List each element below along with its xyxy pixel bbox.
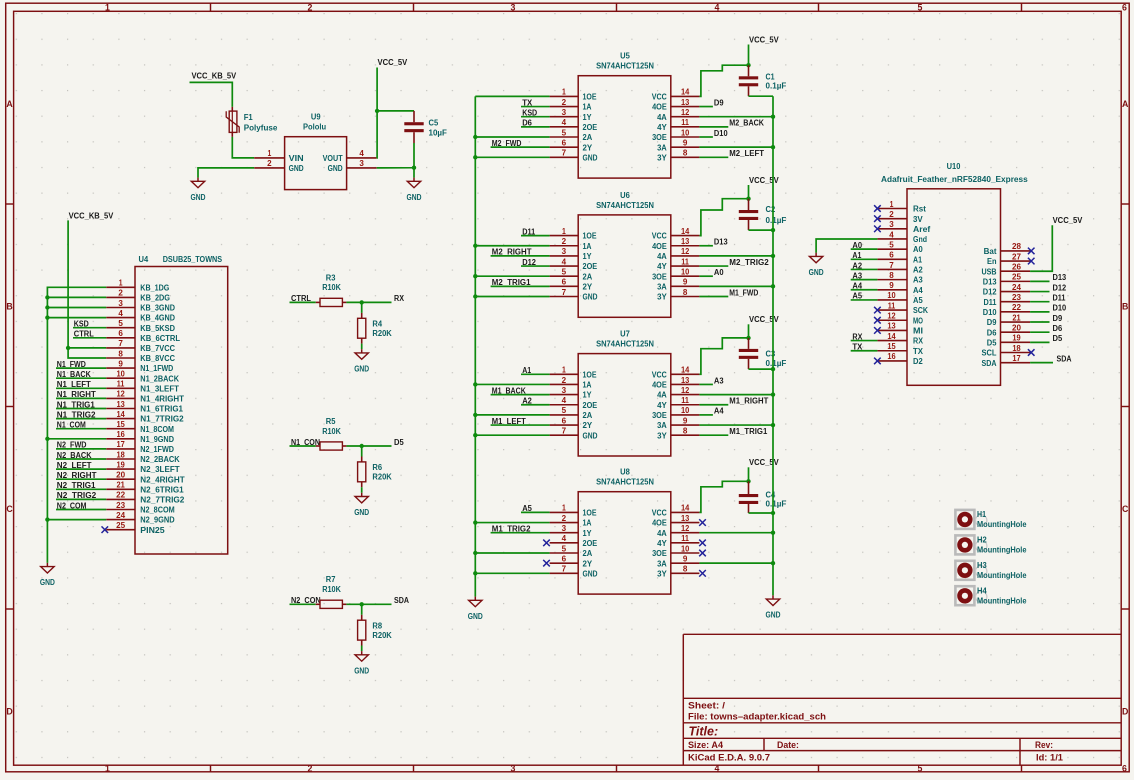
- svg-text:RX: RX: [913, 336, 923, 346]
- svg-text:C: C: [1122, 504, 1129, 514]
- svg-text:A: A: [1122, 99, 1129, 109]
- svg-text:3A: 3A: [657, 558, 667, 568]
- capacitor C4 0.1uF: [739, 481, 787, 513]
- svg-text:4OE: 4OE: [652, 102, 667, 112]
- svg-text:A0: A0: [913, 244, 923, 254]
- connector U4 DSUB25_TOWNS: [106, 254, 228, 554]
- net label SDA (U10): [1030, 362, 1053, 364]
- svg-text:R20K: R20K: [372, 328, 392, 338]
- svg-text:1: 1: [119, 279, 123, 288]
- svg-text:N1_7TRIG2: N1_7TRIG2: [140, 414, 184, 424]
- svg-text:6: 6: [562, 554, 567, 563]
- wire C1 to right bus: [749, 95, 774, 97]
- svg-text:KB_7VCC: KB_7VCC: [140, 343, 175, 353]
- svg-text:12: 12: [681, 524, 690, 533]
- svg-text:MountingHole: MountingHole: [977, 545, 1027, 555]
- svg-text:3A: 3A: [657, 142, 667, 152]
- wire down to R6: [361, 446, 363, 457]
- junction VCC C3: [746, 336, 750, 340]
- svg-text:13: 13: [681, 514, 690, 523]
- svg-text:M1_FWD: M1_FWD: [729, 287, 758, 297]
- svg-text:VCC_5V: VCC_5V: [749, 34, 779, 44]
- svg-text:A2: A2: [913, 265, 923, 275]
- svg-text:5: 5: [562, 268, 567, 277]
- svg-text:21: 21: [116, 481, 125, 490]
- svg-text:VOUT: VOUT: [323, 153, 344, 163]
- svg-text:1: 1: [105, 763, 110, 773]
- svg-text:1OE: 1OE: [583, 231, 597, 241]
- wire U7 pin 14 to VCC_5V: [699, 338, 748, 374]
- wire down to R4: [361, 302, 363, 313]
- wire U5 pin 13 to D9: [699, 106, 713, 108]
- svg-text:GND: GND: [328, 163, 343, 173]
- junction (GND node at C5): [412, 166, 416, 170]
- svg-text:2: 2: [562, 98, 567, 107]
- svg-text:Rst: Rst: [913, 204, 926, 214]
- junction VCC C2: [746, 197, 750, 201]
- svg-text:1A: 1A: [583, 518, 592, 528]
- no-connects U10 left pins 1,2,3,11,12,13,16: [874, 205, 881, 212]
- svg-text:SCL: SCL: [982, 348, 997, 358]
- svg-text:En: En: [987, 256, 997, 266]
- svg-text:2OE: 2OE: [583, 400, 598, 410]
- junction bus/U5.9: [771, 145, 775, 149]
- no-connect U8 pin 8: [699, 570, 706, 577]
- svg-text:KB_3GND: KB_3GND: [140, 303, 175, 313]
- no-connect U4 pin 25: [102, 526, 109, 533]
- svg-text:D10: D10: [983, 307, 997, 317]
- svg-text:3OE: 3OE: [652, 132, 667, 142]
- wire R5 to D5: [346, 445, 391, 447]
- wire C4 to right bus: [749, 512, 774, 514]
- capacitor C5: [404, 111, 447, 143]
- svg-text:3: 3: [359, 159, 364, 168]
- wire bus to U8 pin 2: [475, 522, 549, 524]
- net label D12 (U10): [1030, 291, 1049, 293]
- wire R3 to RX: [346, 301, 391, 303]
- svg-text:N2_2BACK: N2_2BACK: [140, 454, 180, 464]
- wire C5 / U9 GND(3): [377, 143, 414, 168]
- svg-text:D12: D12: [1053, 282, 1067, 292]
- junction bus/U8.9: [771, 561, 775, 565]
- wire U5 pin 11 to M2_BACK: [699, 126, 728, 128]
- ground symbol (U4): [40, 563, 55, 587]
- svg-text:6: 6: [1122, 763, 1127, 773]
- svg-text:1: 1: [562, 227, 566, 236]
- junction bus/U7.9: [771, 423, 775, 427]
- svg-text:N1_3LEFT: N1_3LEFT: [140, 383, 179, 393]
- svg-text:B: B: [1122, 302, 1128, 312]
- no-connect U8 pin 6: [543, 560, 550, 567]
- svg-text:VCC_5V: VCC_5V: [378, 57, 408, 67]
- svg-text:A: A: [6, 99, 13, 109]
- svg-text:3OE: 3OE: [652, 410, 667, 420]
- svg-text:10: 10: [681, 406, 690, 415]
- svg-text:VCC: VCC: [652, 231, 667, 241]
- svg-text:VIN: VIN: [289, 153, 304, 163]
- svg-text:Aref: Aref: [913, 224, 930, 234]
- svg-text:A1: A1: [913, 254, 922, 264]
- svg-text:GND: GND: [354, 507, 369, 517]
- svg-text:D13: D13: [714, 237, 728, 247]
- svg-text:KB_1DG: KB_1DG: [140, 282, 169, 292]
- svg-text:N1_2BACK: N1_2BACK: [140, 373, 179, 383]
- svg-text:D6: D6: [1053, 323, 1063, 333]
- svg-text:Sheet: /: Sheet: /: [688, 700, 726, 710]
- svg-text:6: 6: [562, 278, 567, 287]
- svg-text:25: 25: [116, 521, 125, 530]
- svg-text:PIN25: PIN25: [140, 525, 165, 535]
- svg-text:14: 14: [681, 504, 690, 513]
- no-connect U8 pin 13: [699, 519, 706, 526]
- wire M2_RIGHT to U6 pin 3: [491, 255, 550, 257]
- svg-text:DSUB25_TOWNS: DSUB25_TOWNS: [163, 254, 223, 264]
- svg-text:MI: MI: [913, 326, 923, 336]
- svg-text:11: 11: [681, 118, 689, 127]
- wire bus to U6 pin 2: [475, 245, 549, 247]
- svg-text:N2_8COM: N2_8COM: [140, 505, 174, 515]
- wire C3 to right bus: [749, 368, 774, 370]
- svg-text:1: 1: [562, 366, 566, 375]
- junction VCC C1: [746, 63, 750, 67]
- svg-text:0.1µF: 0.1µF: [766, 215, 787, 225]
- ground symbol: [354, 651, 369, 675]
- svg-text:26: 26: [1012, 263, 1021, 272]
- svg-text:2Y: 2Y: [583, 420, 593, 430]
- svg-text:F1: F1: [244, 112, 253, 122]
- junction bus/U8.2: [473, 520, 477, 524]
- svg-text:N2_4RIGHT: N2_4RIGHT: [140, 474, 185, 484]
- svg-text:7: 7: [562, 288, 567, 297]
- capacitor C2 0.1uF: [739, 199, 787, 230]
- svg-text:R7: R7: [326, 574, 336, 584]
- svg-text:3: 3: [562, 108, 567, 117]
- svg-text:GND: GND: [766, 610, 781, 620]
- svg-text:U10: U10: [947, 161, 961, 171]
- svg-text:1Y: 1Y: [583, 112, 592, 122]
- svg-text:4: 4: [715, 3, 720, 13]
- svg-text:File: towns–adapter.kicad_sch: File: towns–adapter.kicad_sch: [688, 711, 826, 721]
- svg-text:9: 9: [683, 554, 688, 563]
- wire D12 to U6 pin 4: [521, 265, 550, 267]
- svg-text:23: 23: [116, 501, 125, 510]
- svg-text:8: 8: [683, 565, 688, 574]
- svg-text:KB_2DG: KB_2DG: [140, 293, 170, 303]
- svg-text:11: 11: [888, 301, 896, 310]
- svg-text:D10: D10: [1053, 303, 1067, 313]
- svg-text:22: 22: [116, 491, 125, 500]
- svg-text:U5: U5: [620, 51, 630, 61]
- svg-text:R10K: R10K: [322, 584, 341, 594]
- wire VCC_KB_5V to F1: [190, 82, 233, 107]
- svg-text:9: 9: [683, 278, 688, 287]
- svg-text:A0: A0: [714, 267, 724, 277]
- svg-text:VCC_KB_5V: VCC_KB_5V: [69, 211, 114, 221]
- svg-text:5: 5: [562, 406, 567, 415]
- svg-text:N1_8COM: N1_8COM: [140, 424, 174, 434]
- svg-text:D: D: [1122, 707, 1128, 717]
- junctions on U4 ground bus: [45, 295, 49, 299]
- svg-text:4: 4: [562, 534, 567, 543]
- svg-text:3OE: 3OE: [652, 271, 667, 281]
- svg-text:D10: D10: [714, 128, 728, 138]
- wire KSD to U5 pin 3: [521, 116, 550, 118]
- svg-text:3OE: 3OE: [652, 548, 667, 558]
- svg-text:SN74AHCT125N: SN74AHCT125N: [596, 61, 654, 71]
- net label D10 (U10): [1030, 311, 1049, 313]
- svg-text:9: 9: [683, 138, 688, 147]
- wire M1_TRIG2 to U8 pin 3: [491, 532, 550, 534]
- svg-text:C5: C5: [429, 118, 439, 128]
- svg-text:1A: 1A: [583, 102, 592, 112]
- svg-text:1: 1: [890, 200, 894, 209]
- svg-text:4A: 4A: [657, 528, 667, 538]
- svg-text:5: 5: [918, 3, 923, 13]
- junction bus/U7.12: [771, 392, 775, 396]
- wire U5 pin 9 to right bus: [699, 146, 773, 148]
- svg-text:D12: D12: [983, 287, 997, 297]
- ground symbol: [354, 493, 369, 517]
- svg-text:21: 21: [1012, 313, 1021, 322]
- wire U9 GND(2) down: [198, 168, 254, 178]
- svg-text:GND: GND: [468, 611, 483, 621]
- svg-text:U4: U4: [139, 254, 149, 264]
- wire F1 to U9 VIN: [232, 137, 254, 158]
- wire VCC_5V stub C4: [748, 467, 750, 481]
- svg-text:2Y: 2Y: [583, 281, 593, 291]
- svg-text:MountingHole: MountingHole: [977, 519, 1027, 529]
- svg-text:2: 2: [118, 289, 123, 298]
- svg-text:H3: H3: [977, 560, 987, 570]
- svg-text:VCC_5V: VCC_5V: [749, 314, 779, 324]
- svg-text:VCC_5V: VCC_5V: [1053, 215, 1083, 225]
- svg-text:12: 12: [887, 312, 896, 321]
- junction bus/U5.5: [473, 135, 477, 139]
- svg-text:3: 3: [511, 3, 516, 13]
- svg-text:9: 9: [683, 416, 688, 425]
- svg-text:4Y: 4Y: [657, 122, 667, 132]
- svg-text:10: 10: [887, 291, 896, 300]
- wire D6 to U5 pin 4: [521, 126, 550, 128]
- wire VCC_5V stub C3: [748, 324, 750, 338]
- svg-text:2OE: 2OE: [583, 122, 598, 132]
- module U10 Adafruit_Feather_nRF52840_Express: [877, 161, 1030, 385]
- svg-text:D5: D5: [987, 337, 997, 347]
- svg-text:5: 5: [562, 128, 567, 137]
- wire A1 to U7 pin 1: [521, 373, 550, 375]
- regulator U9: [254, 111, 377, 189]
- svg-text:D13: D13: [983, 276, 997, 286]
- svg-text:Rev:: Rev:: [1035, 740, 1053, 750]
- svg-text:14: 14: [887, 332, 896, 341]
- wire R6 to ground: [361, 487, 363, 493]
- svg-text:2A: 2A: [583, 548, 593, 558]
- svg-text:3: 3: [118, 299, 123, 308]
- svg-text:4OE: 4OE: [652, 241, 667, 251]
- junction (SDA node): [360, 602, 364, 606]
- svg-text:14: 14: [681, 366, 690, 375]
- wire right bus U5-U8: [772, 96, 774, 595]
- svg-text:D11: D11: [1053, 293, 1066, 303]
- svg-text:5: 5: [562, 544, 567, 553]
- svg-text:GND: GND: [289, 163, 304, 173]
- wire U6 pin 13 to D13: [699, 245, 713, 247]
- svg-text:4: 4: [118, 309, 123, 318]
- svg-text:4Y: 4Y: [657, 538, 667, 548]
- svg-text:8: 8: [683, 149, 688, 158]
- wire M1_LEFT to U7 pin 6: [491, 424, 550, 426]
- svg-text:M1_RIGHT: M1_RIGHT: [729, 396, 769, 406]
- junction bus/U5.7: [473, 155, 477, 159]
- svg-text:8: 8: [683, 288, 688, 297]
- svg-text:17: 17: [1012, 354, 1021, 363]
- junction (RX node): [360, 300, 364, 304]
- net label D9 (U10): [1030, 321, 1049, 323]
- svg-text:1: 1: [105, 3, 110, 13]
- wire bus to U6 pin 7: [475, 296, 549, 298]
- svg-text:U8: U8: [620, 467, 630, 477]
- svg-text:Size: A4: Size: A4: [688, 740, 723, 750]
- junction bus/U8.5: [473, 551, 477, 555]
- junction bus/U6.7: [473, 294, 477, 298]
- svg-text:SN74AHCT125N: SN74AHCT125N: [596, 477, 654, 487]
- wire M2_TRIG1 to U6 pin 6: [491, 285, 550, 287]
- svg-text:4: 4: [889, 230, 894, 239]
- no-connect U8 pin 4: [543, 540, 550, 547]
- svg-text:KiCad E.D.A. 9.0.7: KiCad E.D.A. 9.0.7: [688, 753, 770, 763]
- svg-text:16: 16: [887, 352, 896, 361]
- junction VCC C4: [746, 479, 750, 483]
- svg-text:R10K: R10K: [322, 282, 341, 292]
- svg-text:N2_9GND: N2_9GND: [140, 515, 174, 525]
- svg-text:A4: A4: [714, 406, 724, 416]
- svg-text:A3: A3: [714, 375, 724, 385]
- svg-text:KB_5KSD: KB_5KSD: [140, 323, 175, 333]
- ground symbol (U9 input): [191, 178, 206, 202]
- svg-text:M2_TRIG2: M2_TRIG2: [729, 257, 769, 267]
- resistor R4: [358, 313, 393, 344]
- wire U5 pin 10 to D10: [699, 136, 713, 138]
- svg-text:2: 2: [889, 210, 894, 219]
- svg-text:8: 8: [889, 271, 894, 280]
- resistor R8: [358, 615, 393, 646]
- svg-text:2Y: 2Y: [583, 142, 593, 152]
- mounting hole H3: [955, 560, 1026, 580]
- svg-text:1: 1: [562, 504, 566, 513]
- svg-text:15: 15: [887, 342, 896, 351]
- wire bus to U7 pin 7: [475, 434, 549, 436]
- wire C2 to right bus: [749, 229, 774, 231]
- svg-text:10: 10: [681, 268, 690, 277]
- capacitor C1 0.1uF: [739, 65, 787, 96]
- svg-text:GND: GND: [583, 568, 598, 578]
- svg-text:VCC_5V: VCC_5V: [749, 457, 779, 467]
- svg-text:10: 10: [116, 370, 125, 379]
- svg-text:GND: GND: [583, 292, 598, 302]
- wire U7 pin 8 to M1_TRIG1: [699, 434, 728, 436]
- wire U6 pin 12 to right bus: [699, 255, 773, 257]
- resistor R3: [316, 272, 347, 306]
- svg-text:3: 3: [562, 247, 567, 256]
- ground symbol: [354, 349, 369, 373]
- svg-text:GND: GND: [583, 152, 598, 162]
- svg-text:1OE: 1OE: [583, 508, 597, 518]
- junction bus/U5.12: [771, 115, 775, 119]
- svg-text:D9: D9: [987, 317, 997, 327]
- svg-text:4Y: 4Y: [657, 261, 667, 271]
- svg-text:20: 20: [116, 471, 125, 480]
- svg-text:20: 20: [1012, 323, 1021, 332]
- wire U10 USB pin 26 to VCC_5V: [1030, 225, 1052, 271]
- svg-text:2A: 2A: [583, 132, 593, 142]
- junction bus/C3: [771, 367, 775, 371]
- wire U5 pin 8 to M2_LEFT: [699, 156, 728, 158]
- svg-text:12: 12: [681, 247, 690, 256]
- svg-text:0.1µF: 0.1µF: [766, 80, 787, 90]
- ground symbol (left bus): [468, 597, 483, 621]
- mounting hole H1: [955, 509, 1026, 529]
- wire down to R8: [361, 604, 363, 615]
- svg-text:3V: 3V: [913, 214, 923, 224]
- svg-text:D2: D2: [913, 356, 923, 366]
- svg-text:D9: D9: [1053, 313, 1063, 323]
- resistor R7: [316, 574, 347, 608]
- svg-text:N2_7TRIG2: N2_7TRIG2: [140, 495, 184, 505]
- junction bus/U8.12: [771, 531, 775, 535]
- svg-text:A4: A4: [913, 285, 923, 295]
- svg-text:A3: A3: [913, 275, 923, 285]
- svg-text:3Y: 3Y: [657, 568, 667, 578]
- svg-text:D: D: [6, 707, 12, 717]
- capacitor C3 0.1uF: [739, 338, 787, 369]
- buffer IC U6 SN74AHCT125N: [550, 190, 700, 317]
- wire U5 pin 14 to VCC_5V: [699, 65, 748, 96]
- svg-text:5: 5: [118, 319, 123, 328]
- junction bus/C2: [771, 228, 775, 232]
- svg-text:Gnd: Gnd: [913, 234, 927, 244]
- junction bus/U6.12: [771, 254, 775, 258]
- svg-text:4: 4: [562, 118, 567, 127]
- wire A2 to U7 pin 4: [521, 404, 550, 406]
- svg-text:MountingHole: MountingHole: [977, 595, 1027, 605]
- svg-text:D5: D5: [394, 437, 404, 447]
- svg-text:2: 2: [562, 514, 567, 523]
- svg-text:U7: U7: [620, 329, 630, 339]
- svg-text:2OE: 2OE: [583, 261, 598, 271]
- net label D6 (U10): [1030, 331, 1049, 333]
- junction bus/U6.9: [771, 284, 775, 288]
- svg-text:A5: A5: [913, 295, 923, 305]
- svg-text:1OE: 1OE: [583, 369, 597, 379]
- svg-text:VCC_KB_5V: VCC_KB_5V: [192, 70, 237, 80]
- svg-text:R3: R3: [326, 272, 336, 282]
- svg-text:13: 13: [681, 376, 690, 385]
- junction (D5 node): [360, 444, 364, 448]
- net label D5 (U10): [1030, 341, 1049, 343]
- junction bus/U7.2: [473, 382, 477, 386]
- svg-text:U9: U9: [311, 111, 321, 121]
- svg-text:22: 22: [1012, 303, 1021, 312]
- wire M2_FWD to U5 pin 6: [491, 146, 550, 148]
- svg-text:Bat: Bat: [984, 246, 997, 256]
- wire U7 pin 11 to M1_RIGHT: [699, 404, 728, 406]
- svg-text:KB_4GND: KB_4GND: [140, 313, 175, 323]
- wire U7 pin 12 to right bus: [699, 394, 773, 396]
- svg-text:10µF: 10µF: [429, 127, 447, 137]
- svg-text:0.1µF: 0.1µF: [766, 499, 787, 509]
- wire U8 pin 9 to right bus: [699, 562, 773, 564]
- svg-text:MountingHole: MountingHole: [977, 570, 1027, 580]
